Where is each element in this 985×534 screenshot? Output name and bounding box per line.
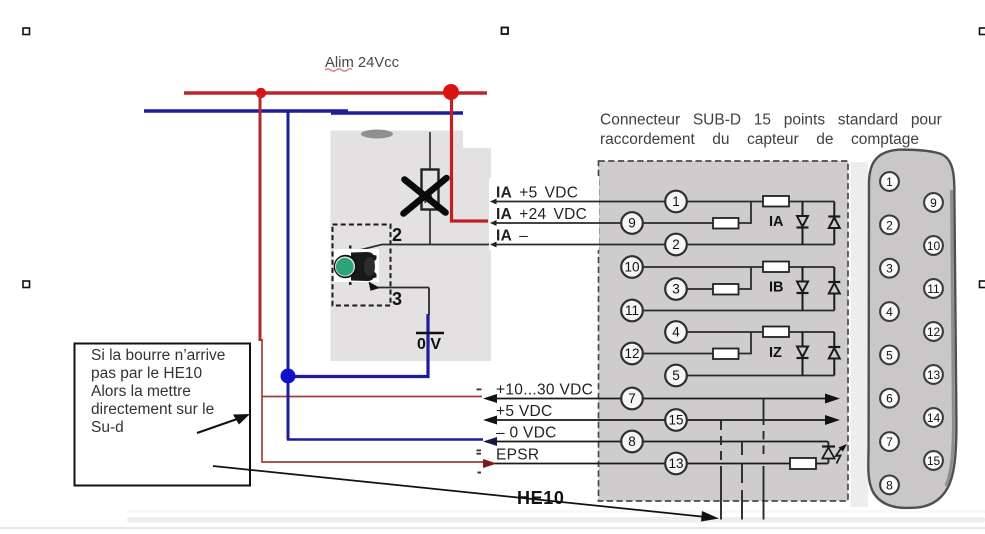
node junction dot right — [443, 84, 459, 100]
svg-text:2: 2 — [672, 237, 680, 252]
wire dark red branch to +10...30 VDC — [262, 396, 482, 398]
svg-text:4: 4 — [672, 325, 680, 340]
svg-text:3: 3 — [392, 289, 402, 309]
svg-text:Si la bourre n’arrive: Si la bourre n’arrive — [91, 347, 225, 364]
decorative top ellipse of module — [361, 130, 393, 139]
wire row pin11 IB return — [632, 310, 834, 312]
wire blue to -0 VDC row — [287, 438, 483, 441]
wire row pin4 — [676, 331, 763, 333]
svg-text:IA +24 VDC: IA +24 VDC — [496, 206, 587, 223]
resistor R-IB1 — [763, 262, 789, 273]
svg-text:1: 1 — [672, 194, 680, 209]
svg-text:raccordement du capteur de com: raccordement du capteur de comptage — [600, 131, 919, 148]
SUB-D connector shell — [868, 150, 956, 508]
surge arrow EPSR — [836, 444, 847, 464]
tiny mark equals — [477, 450, 482, 455]
note box — [75, 344, 251, 486]
switch dashed enclosure — [333, 225, 391, 306]
selection handle top-left — [23, 28, 30, 35]
resistor R-IZ2 — [713, 349, 739, 360]
faint band above bar — [127, 511, 985, 514]
wire start wedge row2 — [490, 242, 497, 248]
svg-text:1: 1 — [886, 175, 893, 189]
wire resistor to diode EPSR — [816, 463, 828, 465]
wire IZ top rail — [789, 331, 834, 333]
svg-text:directement sur le: directement sur le — [91, 401, 214, 418]
ground 0V symbol — [416, 333, 444, 353]
svg-text:IA: IA — [769, 214, 784, 230]
switch terminal 3 with actuator arrow — [369, 282, 430, 291]
wire row pin2 IA return — [492, 244, 834, 246]
light gap strip left of connector — [851, 162, 869, 507]
selection handle top-center — [502, 28, 509, 35]
diode D-IZ1 LED — [797, 332, 809, 376]
wire IB top rail — [789, 266, 834, 268]
svg-text:HE10: HE10 — [517, 488, 564, 508]
svg-text:Connecteur SUB-D 15 points sta: Connecteur SUB-D 15 points standard pour — [600, 112, 942, 129]
bottom toolbar bar — [127, 517, 985, 523]
wire blue 0V bus — [144, 109, 348, 112]
svg-text:EPSR: EPSR — [496, 447, 539, 464]
wire red vertical from left node down — [259, 93, 262, 341]
SUB-D pin 4 — [880, 302, 899, 321]
svg-text:12: 12 — [624, 346, 639, 361]
SUB-D pin 11 — [924, 279, 943, 298]
HE10 cable wire A — [720, 420, 722, 520]
SUB-D pin 12 — [924, 322, 943, 341]
pin circle 5 — [665, 365, 687, 387]
wire IA top rail — [789, 201, 834, 203]
SUB-D pin 10 — [924, 236, 943, 255]
wire blue vertical from bus down — [287, 111, 290, 440]
SUB-D pin 8 — [880, 476, 899, 495]
wire row pin3 — [676, 288, 713, 290]
SUB-D pin 15 — [924, 451, 943, 470]
pin circle 10 — [621, 256, 643, 278]
diode D-IA2 protection — [828, 202, 840, 245]
deletion cross X — [404, 178, 447, 214]
svg-text:11: 11 — [625, 303, 639, 318]
svg-text:IA +5 VDC: IA +5 VDC — [496, 185, 578, 202]
svg-text:5: 5 — [672, 368, 680, 383]
annotation arrow HE10 long — [213, 466, 719, 522]
svg-text:Alim 24Vcc: Alim 24Vcc — [325, 55, 400, 71]
svg-text:0 V: 0 V — [417, 336, 441, 353]
svg-text:– 0 VDC: – 0 VDC — [496, 425, 557, 442]
resistor R-IB2 — [713, 284, 739, 295]
svg-text:9: 9 — [930, 196, 937, 210]
label strip IA background — [489, 178, 599, 250]
wire row pin10 — [632, 266, 763, 268]
wire start wedge row1 — [490, 199, 497, 205]
svg-text:11: 11 — [927, 282, 940, 296]
svg-text:8: 8 — [628, 434, 636, 449]
svg-text:4: 4 — [886, 305, 893, 319]
svg-text:13: 13 — [668, 456, 683, 471]
component box pushbutton module — [331, 131, 464, 362]
wire start wedge row9 — [490, 220, 497, 226]
svg-text:6: 6 — [886, 392, 893, 406]
wire row pin8 -0VDC — [483, 437, 828, 446]
svg-text:10: 10 — [927, 239, 941, 253]
resistor R-IZ1 — [763, 327, 789, 338]
resistor R-IA1 — [763, 196, 789, 207]
node junction dot left — [256, 88, 266, 98]
svg-text:IB: IB — [769, 280, 784, 296]
SUB-D pin 13 — [924, 365, 943, 384]
node blue junction dot — [281, 369, 296, 384]
wire resistor to junction IZ — [739, 332, 752, 354]
label Alim 24Vcc — [325, 55, 400, 71]
wire red from right node to IA +24 — [452, 92, 489, 221]
pin circle 3 — [665, 278, 687, 300]
wire resistor to junction — [739, 202, 752, 224]
HE10 cable wire B — [741, 442, 743, 520]
wire red +24V supply bus — [184, 91, 487, 94]
svg-text:3: 3 — [672, 282, 680, 297]
svg-text:5: 5 — [886, 348, 893, 362]
svg-text:IZ: IZ — [769, 345, 782, 361]
SUB-D connector inner right shadow — [946, 190, 953, 486]
big dashed box capteur — [599, 161, 849, 501]
tiny mark dot — [478, 472, 482, 474]
pin circle 12 — [621, 343, 643, 365]
svg-text:15: 15 — [668, 413, 683, 428]
wire component internal vertical — [429, 132, 431, 245]
pushbutton photo — [334, 249, 379, 282]
wire row pin15 +5 — [483, 415, 840, 425]
tiny mark minus — [477, 389, 482, 391]
SUB-D pin 1 — [880, 172, 899, 191]
pin circle 13 — [665, 453, 687, 475]
diode D-IB1 LED — [797, 267, 809, 311]
pin circle 15 — [665, 409, 687, 431]
svg-text:8: 8 — [886, 478, 893, 492]
resistor internal crossed out — [422, 170, 439, 210]
SUB-D pin 14 — [924, 408, 943, 427]
wire row pin12 — [632, 353, 713, 355]
pin circle 7 — [621, 388, 643, 410]
wire black terminal 3 to ground — [428, 288, 430, 316]
wire blue 0V bus segment 2 — [331, 111, 463, 114]
pin circle 4 — [665, 321, 687, 343]
svg-text:3: 3 — [886, 262, 893, 276]
wire resistor to junction IB — [739, 267, 752, 289]
resistor R-IA2 — [713, 218, 739, 229]
wire row pin1 IA+5 — [492, 201, 763, 203]
svg-text:7: 7 — [628, 391, 636, 406]
pin circle 1 — [665, 191, 687, 213]
SUB-D pin 9 — [924, 193, 943, 212]
svg-text:+10...30 VDC: +10...30 VDC — [496, 382, 593, 399]
SUB-D pin 7 — [880, 432, 899, 451]
pin circle 11 — [621, 300, 643, 322]
SUB-D pin 6 — [880, 389, 899, 408]
svg-text:pas par le HE10: pas par le HE10 — [91, 365, 203, 382]
wire row pin7 +10..30 — [483, 394, 840, 404]
svg-text:14: 14 — [927, 411, 941, 425]
note text — [91, 347, 225, 436]
wire row pin13 EPSR — [483, 459, 790, 468]
svg-text:+5 VDC: +5 VDC — [496, 403, 553, 420]
pin circle 2 — [665, 234, 687, 256]
diode D-IZ2 protection — [828, 332, 840, 376]
selection handle top-right — [980, 28, 985, 35]
bottom edge line — [0, 527, 985, 529]
svg-text:9: 9 — [628, 216, 636, 231]
svg-text:13: 13 — [927, 368, 941, 382]
svg-text:10: 10 — [624, 260, 639, 275]
pin circle 8 — [621, 431, 643, 453]
switch contact blade — [352, 245, 492, 253]
svg-text:7: 7 — [886, 435, 893, 449]
svg-text:Alors la mettre: Alors la mettre — [91, 383, 191, 400]
diode D-IB2 protection — [828, 267, 840, 311]
wire row pin5 IZ return — [676, 375, 834, 377]
svg-text:2: 2 — [392, 225, 402, 245]
SUB-D pin 3 — [880, 259, 899, 278]
HE10 cable wire C — [763, 399, 765, 520]
resistor R-EPSR — [790, 458, 816, 469]
wire row pin9 IA+24 — [492, 222, 713, 224]
diode D-IA1 LED — [797, 202, 809, 245]
svg-text:12: 12 — [927, 325, 941, 339]
pin circle 9 — [621, 212, 643, 234]
svg-text:Su-d: Su-d — [91, 419, 124, 436]
selection handle mid-left — [23, 281, 30, 288]
svg-text:2: 2 — [886, 218, 893, 232]
title connecteur SUB-D — [600, 112, 942, 148]
SUB-D pin 5 — [880, 346, 899, 365]
svg-text:15: 15 — [927, 454, 941, 468]
annotation arrow to wires — [197, 414, 250, 433]
svg-text:IA –: IA – — [496, 228, 528, 245]
wire dark red vertical to lower rows — [262, 339, 488, 462]
SUB-D pin 2 — [880, 215, 899, 234]
selection handle mid-right — [980, 281, 985, 288]
actuator dots — [349, 246, 352, 249]
wire blue from node to ground column — [288, 314, 428, 377]
diode D-EPSR transil — [822, 442, 835, 464]
